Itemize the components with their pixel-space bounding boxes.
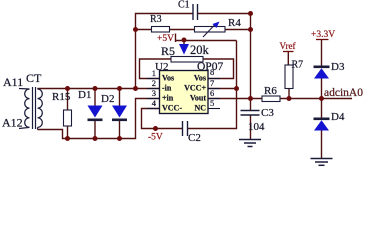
svg-text:1: 1 [152,68,156,78]
svg-text:C3: C3 [261,107,274,119]
svg-text:20k: 20k [190,43,210,57]
svg-text:VCC-: VCC- [162,104,182,113]
svg-text:A12: A12 [2,116,23,130]
svg-text:-5V: -5V [148,133,163,143]
svg-text:6: 6 [210,88,214,98]
svg-text:R3: R3 [150,14,162,25]
svg-text:D2: D2 [101,93,114,105]
svg-text:C2: C2 [188,132,201,144]
svg-text:5: 5 [210,98,214,108]
svg-text:A11: A11 [3,75,23,89]
svg-text:3: 3 [152,88,156,98]
svg-text:R6: R6 [264,85,277,97]
svg-text:C1: C1 [178,0,190,11]
svg-text:D1: D1 [78,89,91,101]
svg-text:2: 2 [152,78,156,88]
svg-text:7: 7 [210,78,214,88]
svg-text:adcinA0: adcinA0 [324,87,363,99]
svg-text:R15: R15 [52,91,71,103]
svg-text:CT: CT [26,71,42,85]
svg-text:R7: R7 [292,60,304,71]
svg-text:R5: R5 [161,44,175,58]
svg-text:VCC+: VCC+ [184,84,206,93]
svg-text:R4: R4 [228,17,241,29]
svg-text:NC: NC [194,104,206,113]
svg-text:+3.3V: +3.3V [311,30,335,40]
svg-text:-in: -in [162,84,172,93]
svg-text:+5V: +5V [157,34,174,44]
svg-text:Vos: Vos [162,74,174,83]
svg-text:D3: D3 [331,61,345,73]
svg-text:Vout: Vout [190,94,206,103]
svg-text:8: 8 [210,67,214,77]
svg-text:104: 104 [248,121,265,133]
svg-text:U2: U2 [155,61,168,73]
svg-text:+in: +in [162,94,174,103]
svg-text:D4: D4 [331,111,345,123]
svg-text:4: 4 [152,98,157,108]
svg-text:Vos: Vos [194,74,206,83]
svg-text:Vref: Vref [280,41,296,51]
